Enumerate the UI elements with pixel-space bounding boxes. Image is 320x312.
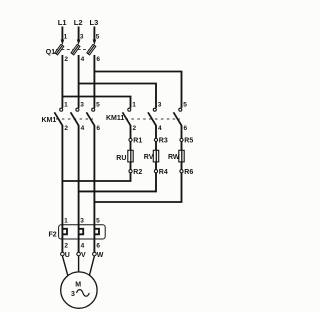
svg-text:U: U	[65, 252, 70, 259]
svg-text:RU: RU	[116, 155, 126, 162]
svg-text:1: 1	[64, 101, 68, 108]
svg-text:L2: L2	[74, 18, 83, 27]
svg-text:6: 6	[96, 125, 100, 132]
svg-text:2: 2	[64, 125, 68, 132]
svg-text:2: 2	[133, 125, 137, 132]
svg-text:4: 4	[81, 125, 85, 132]
svg-text:R6: R6	[184, 169, 193, 176]
svg-text:3: 3	[80, 101, 84, 108]
svg-text:3: 3	[158, 101, 162, 108]
svg-text:1: 1	[132, 101, 136, 108]
svg-text:RV: RV	[144, 154, 154, 161]
svg-text:2: 2	[64, 243, 68, 250]
svg-text:Q1: Q1	[46, 49, 55, 56]
svg-text:L3: L3	[90, 18, 99, 27]
svg-text:R1: R1	[133, 138, 142, 145]
svg-text:M: M	[75, 282, 81, 289]
svg-text:6: 6	[184, 125, 188, 132]
svg-text:L1: L1	[58, 18, 67, 27]
svg-text:W: W	[97, 252, 104, 259]
svg-text:R2: R2	[133, 169, 142, 176]
svg-text:3: 3	[80, 217, 84, 224]
svg-text:R5: R5	[184, 138, 193, 145]
svg-text:3: 3	[71, 291, 75, 298]
svg-text:R4: R4	[159, 169, 168, 176]
svg-text:6: 6	[96, 56, 100, 63]
svg-text:4: 4	[81, 56, 85, 63]
svg-text:KM1: KM1	[42, 117, 57, 124]
svg-text:1: 1	[64, 34, 68, 41]
svg-text:5: 5	[96, 101, 100, 108]
svg-text:2: 2	[64, 56, 68, 63]
svg-text:1: 1	[64, 217, 68, 224]
svg-text:V: V	[81, 252, 86, 259]
svg-text:5: 5	[96, 34, 100, 41]
svg-text:4: 4	[81, 243, 85, 250]
svg-text:R3: R3	[159, 138, 168, 145]
svg-text:F2: F2	[49, 231, 57, 238]
svg-text:RW: RW	[168, 154, 180, 161]
svg-text:5: 5	[183, 101, 187, 108]
svg-text:KM11: KM11	[106, 115, 124, 122]
svg-text:3: 3	[80, 34, 84, 41]
svg-text:6: 6	[96, 243, 100, 250]
svg-text:5: 5	[96, 217, 100, 224]
svg-text:4: 4	[158, 125, 162, 132]
